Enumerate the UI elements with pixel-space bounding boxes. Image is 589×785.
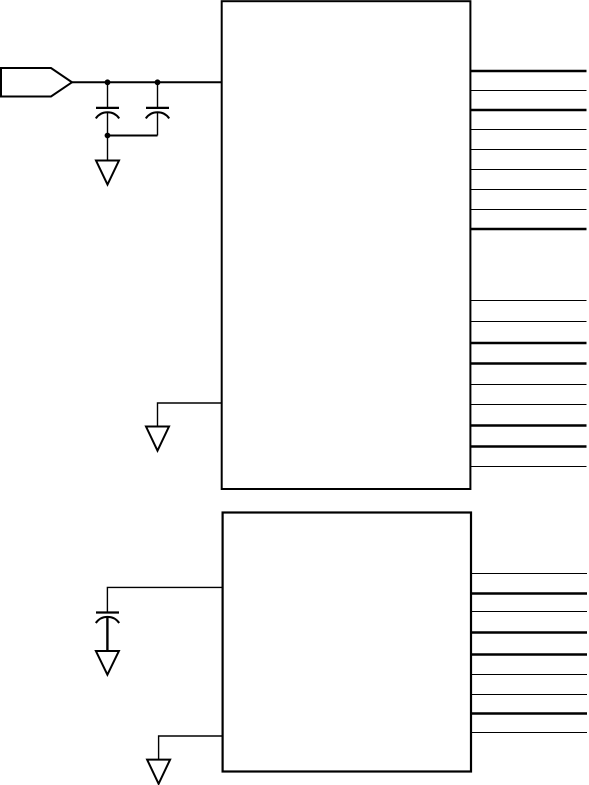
pin U1-16: [470, 424, 586, 426]
wire VCC to U1: [72, 81, 222, 83]
ground 3: [96, 651, 119, 675]
capacitor C2: [146, 82, 169, 135]
IC U2: [223, 513, 471, 772]
pin U1-2: [470, 90, 586, 92]
ground 1: [96, 161, 119, 185]
pin U2-7: [471, 694, 587, 696]
wire U2 GND: [159, 736, 223, 760]
pin U1-10: [470, 300, 586, 302]
pin U2-4: [471, 631, 587, 633]
pin U1-14: [470, 384, 586, 386]
node junction dot 2: [155, 79, 161, 85]
capacitor C3: [96, 613, 119, 652]
pin U1-6: [470, 169, 586, 171]
pin U1-13: [470, 362, 586, 364]
node junction dot 1: [105, 79, 111, 85]
pin U2-9: [471, 732, 587, 734]
pin U1-18: [470, 466, 586, 468]
wire C1 to C2 bottom: [108, 135, 158, 137]
pin U1-15: [470, 404, 586, 406]
pin U1-9: [470, 228, 586, 230]
IC U1: [222, 1, 471, 489]
pin U1-5: [470, 149, 586, 151]
pin U2-2: [471, 592, 587, 594]
pin U2-3: [471, 611, 587, 613]
wire to ground 1: [107, 136, 109, 161]
pin U2-8: [471, 712, 587, 714]
pin U1-17: [470, 445, 586, 447]
pin U1-7: [470, 189, 586, 191]
capacitor C1: [96, 82, 119, 135]
pin U1-1: [470, 70, 586, 72]
pin U2-6: [471, 674, 587, 676]
pin U1-11: [470, 321, 586, 323]
ground 2: [146, 427, 169, 451]
pin U1-8: [470, 209, 586, 211]
ground 4: [147, 760, 170, 784]
wire U2 VCC: [107, 587, 222, 611]
pin U1-12: [470, 342, 586, 344]
node junction dot 3: [105, 133, 111, 139]
pin U1-4: [470, 129, 586, 131]
wire U1 GND: [158, 403, 222, 427]
power input connector J1: [1, 68, 72, 97]
pin U2-1: [471, 573, 587, 575]
pin U1-3: [470, 109, 586, 111]
pin U2-5: [471, 653, 587, 655]
